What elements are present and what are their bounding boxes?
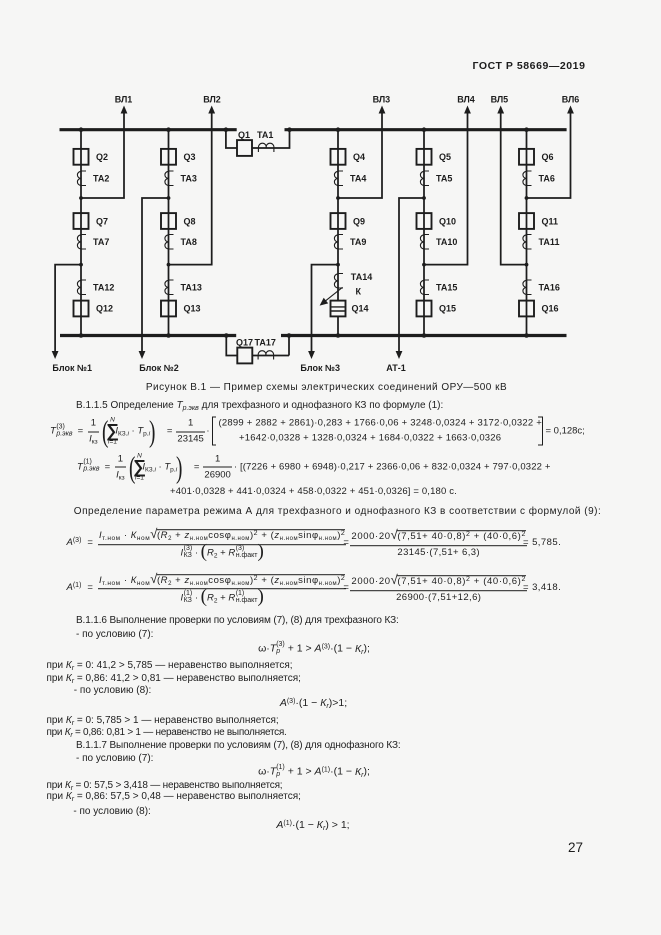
CT TA12 — [77, 280, 86, 295]
wire string 1 — [80, 130, 82, 336]
svg-text:Q1: Q1 — [238, 130, 250, 140]
svg-text:ВЛ6: ВЛ6 — [562, 95, 580, 105]
svg-text:ТА3: ТА3 — [181, 174, 197, 184]
wire block 2 — [142, 198, 169, 352]
breaker Q12 — [74, 301, 89, 317]
node tap2 string1 — [79, 263, 83, 267]
arrow VL4 — [464, 106, 471, 114]
node tap1 string2 — [167, 196, 171, 200]
svg-text:ТА9: ТА9 — [350, 237, 366, 247]
formula A(3) — [67, 526, 562, 560]
wire string 5 — [526, 130, 528, 336]
arrow VL3 — [379, 106, 386, 114]
CT TA7 — [77, 235, 86, 250]
arrow VL1 — [121, 106, 128, 114]
svg-text:ТА7: ТА7 — [93, 237, 109, 247]
svg-text:ТА13: ТА13 — [181, 282, 202, 292]
formula A(1) — [67, 571, 562, 605]
svg-text:Q5: Q5 — [439, 152, 451, 162]
CT TA3 — [165, 171, 174, 186]
CT TA1 — [258, 143, 274, 152]
top busbar section 2 — [285, 128, 567, 131]
header — [473, 61, 586, 72]
arrow VL6 — [567, 106, 574, 114]
breaker Q2 — [74, 149, 89, 165]
node string3-bottombus — [336, 333, 341, 338]
svg-text:ВЛ3: ВЛ3 — [373, 95, 391, 105]
breaker Q14 — [331, 301, 346, 317]
node tap2 string4 — [422, 263, 426, 267]
breaker Q5 — [417, 149, 432, 165]
CT TA16 — [523, 280, 532, 295]
arrow block 1 — [52, 351, 59, 359]
node string3-topbus — [336, 127, 341, 132]
breaker Q6 — [519, 149, 534, 165]
wire block 1 — [55, 265, 81, 352]
svg-text:АТ-1: АТ-1 — [386, 363, 406, 373]
node bypass-top-left — [224, 127, 229, 132]
arrow VL5 — [497, 106, 504, 114]
svg-text:Q9: Q9 — [353, 216, 365, 226]
svg-text:Q8: Q8 — [184, 216, 196, 226]
node string1-topbus — [79, 127, 84, 132]
node tap1 string1 — [79, 196, 83, 200]
breaker Q3 — [161, 149, 176, 165]
wire block 3 — [312, 265, 339, 352]
svg-text:ТА2: ТА2 — [93, 174, 109, 184]
node string1-bottombus — [79, 333, 84, 338]
CT TA13 — [165, 280, 174, 295]
wire feeder VL6 — [527, 111, 571, 198]
wire string 3 — [337, 130, 339, 336]
CT TA5 — [420, 171, 429, 186]
svg-text:ТА8: ТА8 — [181, 237, 197, 247]
CT TA2 — [77, 171, 86, 186]
wire feeder VL1 — [81, 111, 124, 198]
CT TA8 — [165, 235, 174, 250]
svg-text:Блок №3: Блок №3 — [300, 363, 340, 373]
CT TA10 — [420, 235, 429, 250]
CT TA11 — [523, 235, 532, 250]
svg-text:Q4: Q4 — [353, 152, 365, 162]
svg-text:Q6: Q6 — [542, 152, 554, 162]
paragraph A definition — [74, 507, 601, 518]
node bypass-bottom-right — [287, 333, 292, 338]
formula T(1) p.ekv line 1 — [77, 451, 553, 482]
arrow block 2 — [139, 351, 146, 359]
svg-text:ТА17: ТА17 — [255, 337, 276, 347]
bottom busbar section 2 — [281, 334, 567, 337]
svg-text:ВЛ2: ВЛ2 — [203, 95, 221, 105]
paragraph B.1.1.5 — [76, 401, 443, 412]
wire bypass Q1 top — [226, 130, 290, 148]
CT TA14 — [334, 274, 343, 289]
formula T(1) p.ekv line 2 — [170, 487, 457, 498]
breaker Q8 — [161, 213, 176, 229]
svg-text:ВЛ1: ВЛ1 — [115, 95, 133, 105]
breaker Q13 — [161, 301, 176, 317]
node string2-topbus — [166, 127, 171, 132]
short-circuit point K arrow — [320, 287, 343, 305]
breaker Q7 — [74, 213, 89, 229]
node tap2 string3 — [336, 263, 340, 267]
node string2-bottombus — [166, 333, 171, 338]
wire feeder VL3 — [338, 111, 382, 198]
breaker Q9 — [331, 213, 346, 229]
CT TA15 — [420, 280, 429, 295]
node tap2 string5 — [525, 263, 529, 267]
svg-text:Блок №2: Блок №2 — [139, 363, 179, 373]
svg-text:Q7: Q7 — [96, 216, 108, 226]
svg-text:Блок №1: Блок №1 — [52, 363, 92, 373]
breaker Q1 — [237, 140, 252, 156]
CT TA9 — [334, 235, 343, 250]
node string5-bottombus — [524, 333, 529, 338]
svg-text:Q16: Q16 — [542, 304, 559, 314]
node string4-topbus — [422, 127, 427, 132]
CT TA6 — [523, 171, 532, 186]
svg-text:Q17: Q17 — [236, 337, 253, 347]
node string5-topbus — [524, 127, 529, 132]
svg-text:Q11: Q11 — [542, 216, 559, 226]
svg-text:ТА5: ТА5 — [436, 174, 452, 184]
svg-text:Q13: Q13 — [184, 304, 201, 314]
node string4-bottombus — [422, 333, 427, 338]
svg-text:ТА12: ТА12 — [93, 282, 114, 292]
CT TA17 — [258, 351, 274, 360]
arrow VL2 — [208, 106, 215, 114]
wire string 2 — [168, 130, 170, 336]
breaker Q11 — [519, 213, 534, 229]
svg-text:ТА6: ТА6 — [539, 174, 555, 184]
wire feeder VL5 — [501, 111, 527, 265]
node bypass-top-right — [287, 127, 292, 132]
node bypass-bottom-left — [224, 333, 229, 338]
caption figure B.1 — [146, 383, 507, 394]
svg-text:ВЛ4: ВЛ4 — [457, 95, 475, 105]
breaker Q16 — [519, 301, 534, 317]
svg-text:ТА15: ТА15 — [436, 282, 457, 292]
formula T(3) p.ekv — [50, 416, 585, 447]
wire feeder VL4 — [424, 111, 468, 265]
node tap2 string2 — [167, 263, 171, 267]
bottom busbar section 1 — [60, 334, 236, 337]
wire string 4 — [423, 130, 425, 336]
svg-text:ТА11: ТА11 — [539, 237, 560, 247]
svg-text:Q10: Q10 — [439, 216, 456, 226]
wire bypass Q17 bottom — [226, 336, 289, 356]
svg-text:К: К — [356, 287, 362, 297]
wire feeder VL2 — [169, 111, 212, 265]
svg-text:ВЛ5: ВЛ5 — [491, 95, 509, 105]
svg-text:ТА16: ТА16 — [539, 282, 560, 292]
breaker Q17 — [237, 348, 252, 364]
arrow block 3 — [308, 351, 315, 359]
svg-text:ТА4: ТА4 — [350, 174, 366, 184]
node tap1 string5 — [525, 196, 529, 200]
breaker Q10 — [417, 213, 432, 229]
node tap1 string4 — [422, 196, 426, 200]
wire AT-1 — [399, 198, 424, 352]
svg-text:Q14: Q14 — [352, 304, 369, 314]
svg-text:ТА10: ТА10 — [436, 237, 457, 247]
svg-text:ТА14: ТА14 — [351, 272, 372, 282]
B.1.1.6 block — [76, 616, 399, 627]
svg-text:ТА1: ТА1 — [257, 130, 273, 140]
CT TA4 — [334, 171, 343, 186]
breaker Q15 — [417, 301, 432, 317]
svg-text:Q15: Q15 — [439, 304, 456, 314]
svg-text:Q12: Q12 — [96, 304, 113, 314]
node tap1 string3 — [336, 196, 340, 200]
arrow AT-1 — [396, 351, 403, 359]
breaker Q4 — [331, 149, 346, 165]
svg-text:Q2: Q2 — [96, 152, 108, 162]
svg-text:Q3: Q3 — [184, 152, 196, 162]
top busbar section 1 — [60, 128, 237, 131]
